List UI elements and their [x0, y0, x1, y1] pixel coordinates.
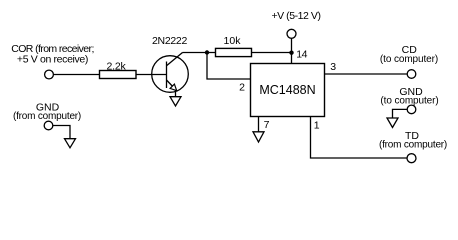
terminal COR	[45, 70, 54, 79]
svg-text:1: 1	[314, 120, 320, 132]
pin 1 wire to TD	[311, 117, 408, 159]
svg-text:10k: 10k	[224, 35, 242, 47]
svg-text:14: 14	[296, 48, 307, 60]
terminal CD	[407, 70, 416, 79]
terminal TD	[407, 154, 416, 163]
ground under pin 7	[253, 132, 264, 142]
svg-text:2N2222: 2N2222	[152, 35, 187, 47]
terminal GND to computer	[407, 105, 416, 114]
op-amp U1 MC1488N	[251, 64, 325, 117]
transistor Q1 2N2222	[152, 53, 189, 93]
wire node A to pin 2	[207, 53, 251, 80]
terminal GND from computer	[44, 121, 53, 130]
node TD label	[379, 130, 447, 150]
svg-text:2.2k: 2.2k	[106, 60, 126, 72]
wire pin 3 to CD	[325, 73, 408, 75]
svg-text:+V (5-12 V): +V (5-12 V)	[271, 10, 320, 22]
node A junction	[205, 50, 209, 54]
svg-text:2: 2	[239, 81, 245, 93]
node CD label	[380, 44, 438, 65]
wire GND from computer	[53, 126, 70, 139]
ground (to computer)	[387, 118, 398, 128]
wire COR to R1	[53, 74, 99, 76]
svg-text:MC1488N: MC1488N	[259, 83, 315, 97]
wire R2 to node B	[252, 52, 292, 54]
svg-text:3: 3	[330, 61, 336, 73]
svg-text:7: 7	[264, 119, 270, 131]
terminal +V	[287, 29, 296, 38]
wire collector to node A	[183, 52, 216, 54]
node B junction	[289, 51, 293, 55]
svg-text:+5 V on receive): +5 V on receive)	[17, 54, 88, 66]
node GND (from computer) label	[13, 102, 81, 122]
node COR label	[11, 43, 94, 66]
resistor R1 2.2k	[100, 71, 137, 79]
pin 7 wire	[258, 117, 260, 132]
node GND (to computer) label	[380, 86, 438, 107]
svg-text:(from computer): (from computer)	[13, 111, 81, 122]
resistor R2 10k	[216, 48, 252, 56]
ground (from computer)	[65, 139, 76, 148]
ground under Q1 emitter	[175, 91, 177, 97]
wire R1 to Q1 base	[136, 74, 167, 76]
svg-text:(from computer): (from computer)	[379, 139, 447, 150]
svg-text:(to computer): (to computer)	[380, 54, 438, 65]
wire +V to pin 14	[291, 38, 293, 63]
wire GND to computer	[393, 109, 408, 118]
